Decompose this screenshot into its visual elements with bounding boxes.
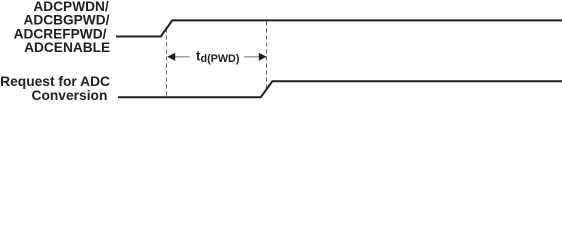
dashed reference line at end of t_d(PWD) (266, 21, 268, 89)
waveform Request for ADC Conversion rising edge (118, 81, 562, 97)
right dimension arrowhead pointing right (259, 53, 267, 61)
right dimension arrow shaft (244, 56, 259, 58)
svg-text:ADCBGPWD/: ADCBGPWD/ (23, 12, 109, 27)
waveform ADCPWDN/ADCBGPWD/ADCREFPWD/ADCENABLE rising edge (116, 20, 562, 36)
dashed reference line at start of t_d(PWD) (166, 28, 168, 96)
svg-text:ADCENABLE: ADCENABLE (24, 40, 110, 55)
left dimension arrowhead pointing left (167, 53, 175, 61)
svg-text:Request for ADC: Request for ADC (0, 74, 110, 89)
left dimension arrow shaft (175, 56, 190, 58)
svg-text:Conversion: Conversion (31, 88, 107, 103)
svg-text:td(PWD): td(PWD) (196, 48, 240, 65)
